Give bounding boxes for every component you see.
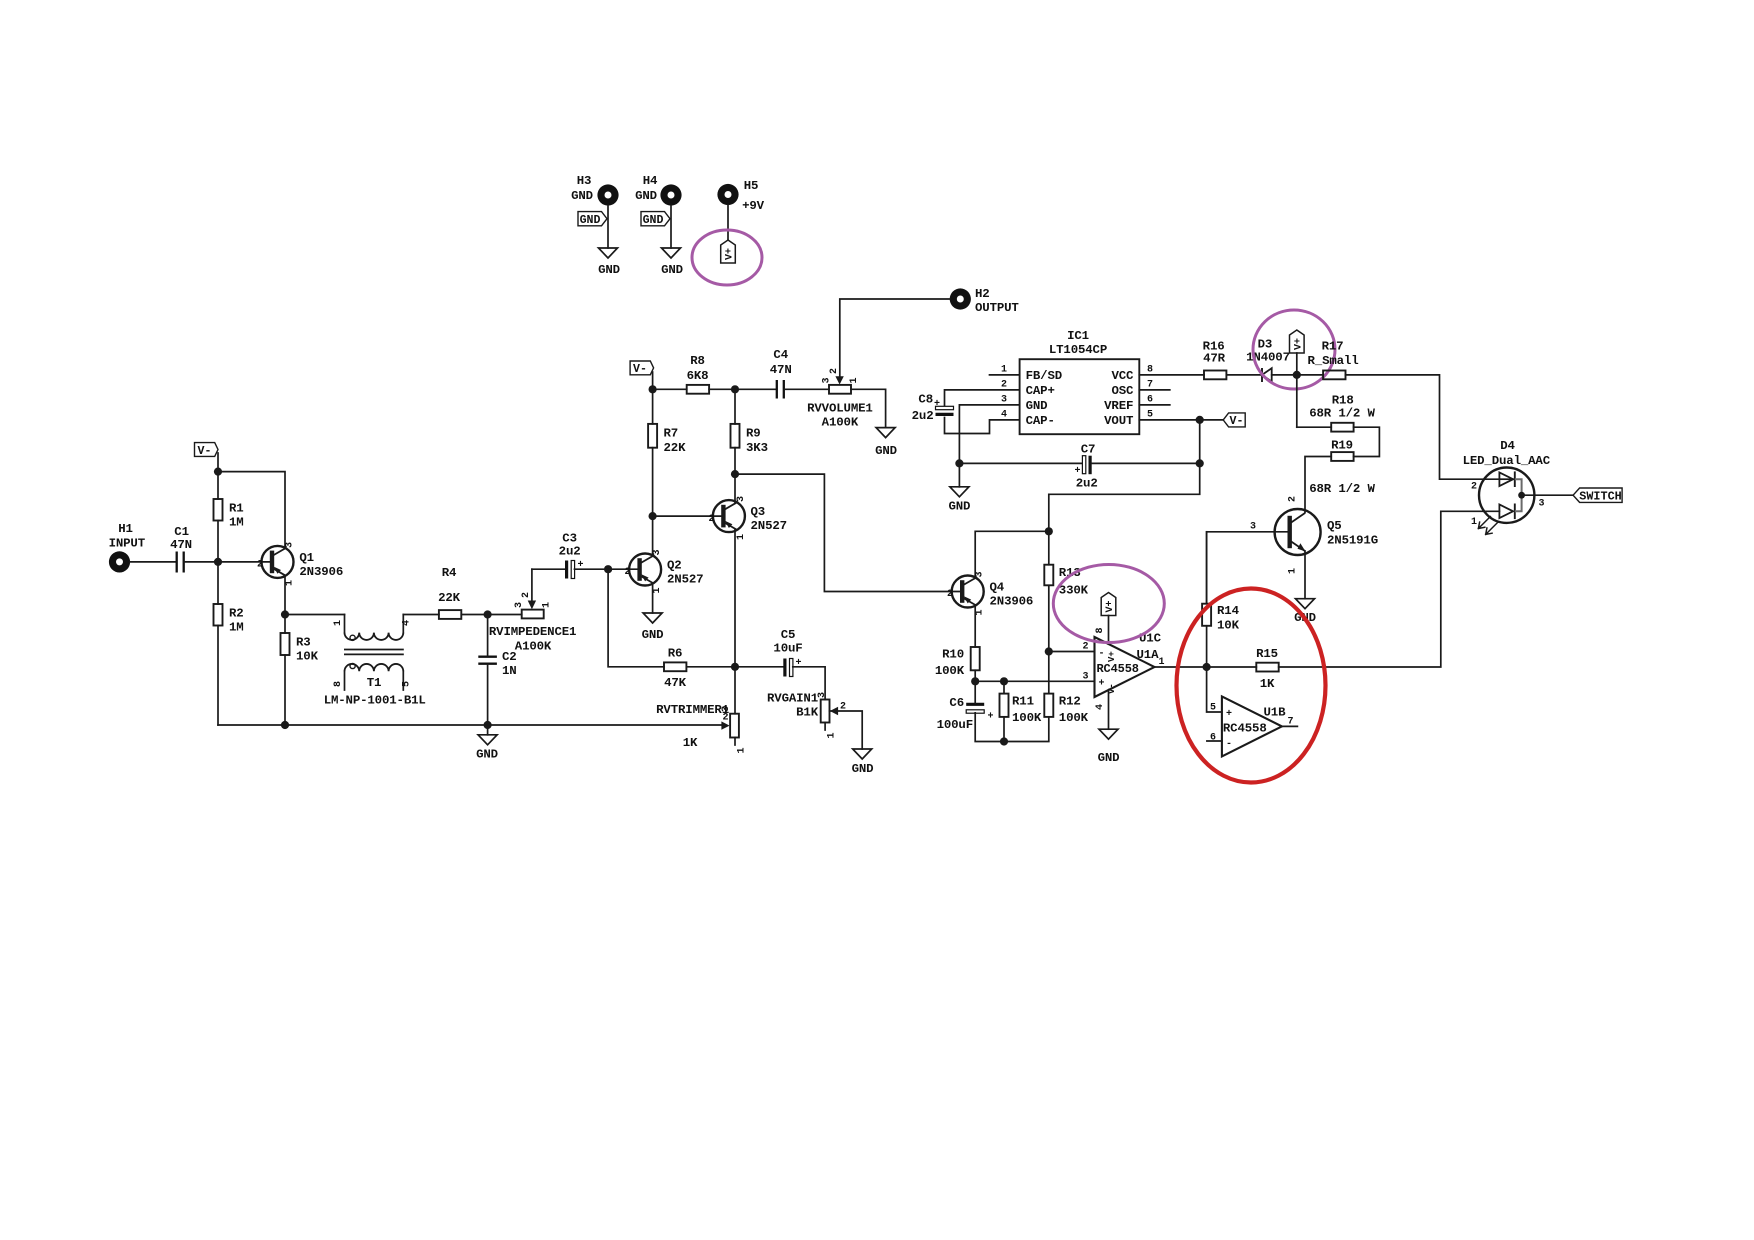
svg-text:VREF: VREF: [1104, 399, 1133, 413]
svg-text:R11: R11: [1012, 695, 1034, 709]
svg-text:GND: GND: [661, 263, 683, 277]
wire R1 leads: [217, 472, 219, 562]
svg-text:GND: GND: [1026, 399, 1048, 413]
svg-text:C2: C2: [502, 650, 517, 664]
svg-text:R9: R9: [746, 427, 761, 441]
svg-text:2: 2: [1001, 380, 1007, 391]
svg-text:V-: V-: [1230, 415, 1244, 428]
svg-text:+: +: [988, 712, 994, 723]
svg-text:2u2: 2u2: [1076, 477, 1098, 491]
junction R13/R12/U1A minus: [1045, 647, 1053, 655]
transistor Q4 2N3906: [947, 571, 1033, 615]
wire R3 leads: [284, 615, 286, 726]
svg-text:+: +: [934, 399, 940, 410]
svg-text:47R: 47R: [1203, 352, 1226, 366]
ground symbol (RVVOLUME1): [875, 428, 897, 458]
svg-text:2: 2: [1082, 642, 1088, 653]
svg-text:1M: 1M: [229, 621, 244, 635]
junction R8/R9/C4: [731, 385, 739, 393]
svg-text:RVVOLUME1: RVVOLUME1: [807, 402, 873, 416]
junction R11 top: [1000, 677, 1008, 685]
svg-text:47K: 47K: [664, 676, 687, 690]
svg-text:RVTRIMMER1: RVTRIMMER1: [656, 703, 729, 717]
diode D3 1N4007: [1246, 338, 1290, 383]
pin 7 OSC stub: [1139, 380, 1170, 391]
transistor Q5 2N5191G: [1250, 496, 1378, 574]
op-amp U1B RC4558: [1210, 696, 1294, 756]
capacitor C7 2u2: [1075, 442, 1098, 490]
ground symbol (Q2): [642, 613, 664, 642]
svg-text:2: 2: [624, 567, 630, 578]
svg-text:68R 1/2 W: 68R 1/2 W: [1309, 407, 1375, 421]
svg-text:GND: GND: [1098, 751, 1120, 765]
svg-text:4: 4: [1001, 410, 1007, 421]
wire T1 pin4 to R4: [403, 614, 439, 616]
wire R16 to D3: [1226, 374, 1262, 376]
resistor R17 R_Small: [1297, 340, 1359, 380]
ground symbol (U1A): [1098, 729, 1120, 765]
svg-text:Q2: Q2: [667, 559, 682, 573]
svg-text:GND: GND: [580, 214, 601, 227]
svg-text:330K: 330K: [1059, 584, 1089, 598]
wire VOUT node down: [1199, 420, 1201, 464]
wire C6 leads and bottom rail: [975, 681, 1049, 741]
ground symbol (RVGAIN1): [852, 749, 874, 776]
svg-text:8: 8: [1095, 627, 1106, 633]
resistor R6 47K: [664, 647, 687, 691]
svg-text:R2: R2: [229, 607, 244, 621]
op-amp U1A RC4558: [1082, 627, 1164, 710]
svg-text:2: 2: [257, 560, 263, 571]
wire node to Q3 base: [653, 515, 724, 517]
junction output node: [1203, 663, 1211, 671]
svg-text:100K: 100K: [935, 664, 965, 678]
svg-text:1: 1: [1471, 517, 1477, 528]
connector H5: [717, 179, 764, 213]
resistor R15 1K: [1256, 647, 1279, 691]
svg-text:-: -: [1098, 649, 1104, 660]
junction V- / R7 / R8: [649, 385, 657, 393]
svg-text:VOUT: VOUT: [1104, 414, 1134, 428]
svg-text:C7: C7: [1081, 442, 1096, 456]
svg-text:10uF: 10uF: [773, 642, 802, 656]
highlight ellipse red: [1177, 589, 1326, 783]
wire H4 to ground: [670, 206, 672, 249]
svg-text:8: 8: [333, 681, 344, 687]
svg-text:R10: R10: [942, 648, 964, 662]
svg-text:68R 1/2 W: 68R 1/2 W: [1309, 482, 1375, 496]
resistor R3 10K: [281, 633, 319, 664]
potentiometer RVIMPEDENCE1 A100K: [489, 569, 576, 653]
wire C7 to V- node: [1092, 462, 1200, 464]
svg-text:3: 3: [1001, 395, 1007, 406]
connector H2: [950, 287, 1020, 315]
svg-text:2u2: 2u2: [559, 545, 581, 559]
svg-text:GND: GND: [852, 762, 874, 776]
pin 5 VOUT wire: [1139, 410, 1223, 421]
svg-text:7: 7: [1147, 380, 1153, 391]
svg-text:R14: R14: [1217, 604, 1240, 618]
svg-text:V-: V-: [198, 445, 212, 458]
wire R10 bottom: [974, 670, 976, 681]
svg-text:R12: R12: [1059, 695, 1081, 709]
svg-text:10K: 10K: [1217, 619, 1240, 633]
pin 2 CAP+ wire to C8: [945, 380, 1020, 407]
svg-text:3: 3: [1082, 672, 1088, 683]
svg-text:5: 5: [1147, 410, 1153, 421]
svg-text:3: 3: [1538, 499, 1544, 510]
svg-text:VCC: VCC: [1111, 369, 1134, 383]
svg-text:Q3: Q3: [751, 505, 766, 519]
ground symbol (H3): [598, 248, 620, 277]
svg-text:T1: T1: [367, 676, 382, 690]
svg-text:LED_Dual_AAC: LED_Dual_AAC: [1463, 454, 1551, 468]
wire RVGAIN1 wiper to ground: [836, 711, 862, 749]
svg-text:1: 1: [333, 620, 344, 626]
svg-text:R6: R6: [668, 647, 683, 661]
svg-text:2: 2: [947, 589, 953, 600]
svg-text:R7: R7: [664, 427, 679, 441]
junction R3 bottom: [281, 721, 289, 729]
svg-text:-: -: [1226, 739, 1232, 750]
svg-text:A100K: A100K: [822, 416, 859, 430]
power symbol V+ (D3): [1290, 330, 1305, 375]
svg-text:3K3: 3K3: [746, 441, 768, 455]
resistor R14 10K: [1202, 532, 1239, 667]
wire R9 leads: [734, 389, 736, 474]
junction V- node: [214, 468, 222, 476]
svg-text:D3: D3: [1258, 338, 1273, 352]
svg-text:3: 3: [817, 692, 828, 698]
wire node to U1A minus: [1049, 651, 1095, 653]
svg-text:R1: R1: [229, 502, 244, 516]
net label GND (H3): [578, 212, 607, 228]
svg-text:22K: 22K: [664, 441, 687, 455]
capacitor C5 10uF: [773, 628, 802, 677]
svg-text:5: 5: [402, 681, 413, 687]
svg-text:R8: R8: [690, 354, 705, 368]
svg-text:GND: GND: [598, 263, 620, 277]
svg-text:H3: H3: [577, 174, 592, 188]
wire C1 to Q1 base: [184, 561, 272, 563]
highlight ellipse purple 2: [1253, 310, 1335, 389]
junction C2 bottom: [484, 721, 492, 729]
net label V- (left): [195, 443, 219, 458]
svg-text:+9V: +9V: [742, 199, 765, 213]
svg-text:3: 3: [285, 542, 296, 548]
svg-text:GND: GND: [643, 214, 664, 227]
svg-text:R17: R17: [1322, 340, 1344, 354]
svg-text:U1B: U1B: [1264, 706, 1287, 720]
svg-text:Q1: Q1: [299, 551, 314, 565]
svg-text:1: 1: [736, 534, 747, 540]
svg-text:LM-NP-1001-B1L: LM-NP-1001-B1L: [324, 694, 426, 708]
svg-text:8: 8: [1147, 365, 1153, 376]
power symbol V+ (U1A): [1101, 593, 1116, 616]
svg-text:+: +: [1075, 466, 1081, 477]
wire U1B pin6 stub: [1207, 740, 1222, 742]
svg-text:RVIMPEDENCE1: RVIMPEDENCE1: [489, 625, 576, 639]
junction R9/Q3 collector: [731, 470, 739, 478]
wire Q5 emitter to ground: [1304, 551, 1306, 599]
wire V- stub to node: [652, 372, 654, 389]
svg-text:GND: GND: [571, 189, 593, 203]
highlight ellipse purple 3: [1053, 565, 1164, 643]
svg-text:V+: V+: [1105, 600, 1116, 612]
svg-text:4: 4: [402, 620, 413, 626]
junction V+ node: [1293, 371, 1301, 379]
svg-text:1: 1: [827, 732, 838, 738]
svg-text:1: 1: [542, 602, 553, 608]
wire U1A pin8 to V+: [1108, 616, 1110, 645]
wire bottom rail: [218, 724, 725, 726]
wire V- node to Q1 collector: [218, 472, 285, 546]
svg-text:3: 3: [1250, 522, 1256, 533]
wire U1B pin5: [1207, 667, 1222, 712]
svg-text:2N3906: 2N3906: [990, 595, 1034, 609]
svg-text:2N527: 2N527: [667, 573, 703, 587]
wire node to Q4 collector: [975, 531, 1049, 578]
junction base node: [214, 558, 222, 566]
svg-text:1: 1: [652, 587, 663, 593]
pin 3 GND wire: [959, 395, 1019, 464]
potentiometer RVVOLUME1 A100K: [807, 368, 873, 430]
pin 6 VREF stub: [1139, 395, 1170, 406]
svg-text:CAP-: CAP-: [1026, 414, 1055, 428]
wire H2 to RVVOLUME1 wiper: [840, 299, 950, 378]
wire R8 leads: [653, 388, 776, 390]
svg-text:B1K: B1K: [796, 706, 819, 720]
wire R4 to node: [461, 614, 521, 616]
junction VOUT node: [1196, 416, 1204, 424]
wire Q5 base: [1207, 532, 1290, 604]
svg-text:10K: 10K: [296, 650, 319, 664]
svg-text:FB/SD: FB/SD: [1026, 369, 1062, 383]
potentiometer RVGAIN1 B1K: [767, 692, 846, 739]
svg-text:2N3906: 2N3906: [299, 565, 343, 579]
svg-text:OSC: OSC: [1111, 384, 1134, 398]
svg-text:H5: H5: [744, 179, 759, 193]
svg-text:47N: 47N: [170, 538, 192, 552]
junction R10/C6 node: [971, 677, 979, 685]
ground symbol (Q5): [1294, 599, 1316, 625]
junction C3/Q2 node: [604, 565, 612, 573]
svg-text:IC1: IC1: [1067, 329, 1089, 343]
pin 4 CAP- wire to C8 bottom: [945, 410, 1020, 434]
wire V- label stub: [217, 453, 219, 472]
transistor Q2 2N527: [624, 549, 703, 593]
wire ground rail to C7: [959, 462, 1082, 464]
wire R18 to R19: [1354, 427, 1380, 456]
svg-text:R3: R3: [296, 636, 311, 650]
svg-text:GND: GND: [642, 628, 664, 642]
power symbol V+ (H5): [721, 240, 736, 263]
wire C3 to Q2 base: [575, 568, 641, 570]
svg-text:GND: GND: [875, 444, 897, 458]
svg-text:LT1054CP: LT1054CP: [1049, 343, 1107, 357]
wire R19 to Q5 collector: [1305, 457, 1331, 513]
svg-text:OUTPUT: OUTPUT: [975, 301, 1019, 315]
svg-text:2: 2: [521, 592, 532, 598]
transistor Q3 2N527: [708, 496, 786, 540]
resistor R8 6K8: [687, 354, 710, 394]
wire R7 leads: [652, 389, 654, 516]
junction R11 bottom: [1000, 737, 1008, 745]
svg-text:Q5: Q5: [1327, 519, 1342, 533]
wire V- feed to Q4/R13: [1049, 463, 1200, 531]
svg-text:+: +: [1098, 679, 1104, 690]
svg-text:R19: R19: [1331, 439, 1353, 453]
svg-text:2N527: 2N527: [751, 519, 787, 533]
wire C4 to RVVOLUME1: [785, 388, 830, 390]
svg-text:1: 1: [737, 747, 748, 753]
svg-text:100K: 100K: [1059, 711, 1089, 725]
connector H1: [109, 522, 146, 573]
svg-text:GND: GND: [476, 748, 498, 762]
resistor R12 100K: [1044, 652, 1088, 726]
svg-text:GND: GND: [635, 189, 657, 203]
resistor R2 1M: [214, 604, 244, 635]
diode D4 LED_Dual_AAC: [1463, 439, 1574, 534]
IC U1 LT1054CP: [1020, 329, 1140, 434]
wire Q2 emitter down: [652, 583, 654, 613]
connector H3: [571, 174, 619, 206]
resistor R9 3K3: [731, 424, 768, 455]
svg-text:2N5191G: 2N5191G: [1327, 534, 1378, 548]
resistor R1 1M: [214, 499, 244, 530]
resistor R18 68R 1/2W: [1297, 394, 1376, 432]
svg-text:2: 2: [1287, 496, 1298, 502]
capacitor C3 2u2: [559, 532, 584, 579]
svg-text:6: 6: [1147, 395, 1153, 406]
junction C7 right node: [1196, 459, 1204, 467]
svg-text:2: 2: [829, 368, 840, 374]
net label V- (VOUT): [1223, 413, 1245, 428]
svg-text:GND: GND: [948, 500, 970, 514]
svg-text:C1: C1: [174, 525, 189, 539]
svg-text:+: +: [1226, 709, 1232, 720]
wire C5 to RVGAIN1: [793, 667, 825, 700]
resistor R10 100K: [935, 647, 980, 678]
resistor R11 100K: [1000, 681, 1042, 741]
svg-text:C3: C3: [562, 532, 577, 546]
wire wiper to C3: [532, 568, 566, 570]
wire H1 to C1: [130, 561, 176, 563]
svg-text:3: 3: [975, 571, 986, 577]
wire U1A pin4 to ground: [1108, 690, 1110, 729]
svg-text:C4: C4: [773, 348, 788, 362]
capacitor C2 1N: [478, 650, 516, 678]
wire node to T1 pin1: [285, 614, 345, 616]
svg-text:R13: R13: [1059, 566, 1081, 580]
svg-text:CAP+: CAP+: [1026, 384, 1055, 398]
capacitor C4 47N: [770, 348, 792, 399]
svg-text:U1A: U1A: [1137, 648, 1160, 662]
wire R15 to D4 riser: [1279, 511, 1500, 667]
wire node to U1A plus: [975, 680, 1094, 682]
connector H4: [635, 174, 682, 206]
svg-text:H4: H4: [643, 174, 658, 188]
svg-text:2u2: 2u2: [912, 409, 934, 423]
resistor R16 47R: [1203, 340, 1227, 380]
svg-text:22K: 22K: [438, 591, 461, 605]
svg-text:H1: H1: [118, 522, 133, 536]
wire U1B pin7 stub: [1282, 725, 1298, 727]
svg-text:1: 1: [285, 580, 296, 586]
svg-text:R18: R18: [1332, 394, 1354, 408]
svg-text:2: 2: [708, 514, 714, 525]
svg-text:3: 3: [652, 549, 663, 555]
svg-text:1K: 1K: [1260, 677, 1275, 691]
wire R2 leads: [217, 562, 219, 725]
svg-text:1: 1: [975, 609, 986, 615]
junction R4/C2 node: [484, 610, 492, 618]
wire Q4 emitter to R10: [974, 605, 976, 647]
junction R7/Q2/Q3 base: [649, 512, 657, 520]
svg-text:V-: V-: [633, 363, 647, 376]
junction pin3/ground rail: [955, 459, 963, 467]
svg-text:R15: R15: [1256, 647, 1278, 661]
svg-text:100uF: 100uF: [937, 718, 973, 732]
svg-text:D4: D4: [1500, 439, 1515, 453]
transformer T1 LM-NP-1001-B1L: [324, 615, 426, 708]
ground symbol (H4): [661, 248, 683, 277]
wire H5 to V+: [727, 205, 729, 240]
svg-text:100K: 100K: [1012, 711, 1042, 725]
net label V- (R8): [630, 361, 654, 376]
svg-text:A100K: A100K: [515, 640, 552, 654]
capacitor C6 100uF: [937, 696, 994, 732]
svg-text:INPUT: INPUT: [109, 537, 146, 551]
svg-text:R4: R4: [442, 566, 457, 580]
svg-text:3: 3: [514, 602, 525, 608]
net label SWITCH: [1573, 488, 1622, 504]
highlight ellipse purple 1: [692, 230, 762, 285]
wire Q3 emitter down to R6 node: [734, 530, 736, 667]
wire Q1 emitter to node: [284, 575, 286, 614]
capacitor C8 2u2: [912, 393, 954, 424]
resistor R19 68R 1/2W: [1309, 439, 1375, 497]
svg-text:2: 2: [1471, 482, 1477, 493]
ground symbol (C2): [476, 725, 498, 762]
svg-text:1: 1: [1001, 365, 1007, 376]
svg-text:H2: H2: [975, 287, 990, 301]
svg-text:RC4558: RC4558: [1223, 722, 1267, 736]
junction Q4 collector / R13: [1045, 527, 1053, 535]
wire D3 to V+ node: [1272, 374, 1297, 376]
svg-text:V+: V+: [725, 248, 736, 260]
junction R6/Q3/C5/trimmer: [731, 663, 739, 671]
wire R17 to D4 riser: [1346, 375, 1500, 479]
wire H3 to ground: [607, 206, 609, 249]
svg-text:V+: V+: [1107, 651, 1117, 662]
transistor Q1 2N3906: [257, 542, 343, 586]
capacitor C1 47N: [170, 525, 192, 573]
svg-text:R_Small: R_Small: [1308, 354, 1359, 368]
potentiometer RVTRIMMER1 1K: [656, 667, 747, 754]
wire Q3 collector up: [734, 474, 736, 503]
svg-text:6K8: 6K8: [687, 369, 709, 383]
svg-text:47N: 47N: [770, 363, 792, 377]
svg-text:C8: C8: [918, 393, 933, 407]
resistor R7 22K: [648, 424, 686, 455]
svg-text:1N: 1N: [502, 664, 517, 678]
svg-text:V+: V+: [1293, 338, 1304, 350]
ground symbol (IC1): [948, 463, 970, 513]
wire V+ node down to R18: [1296, 375, 1298, 427]
resistor R13 330K: [1044, 531, 1088, 651]
net label GND (H4): [641, 212, 670, 228]
